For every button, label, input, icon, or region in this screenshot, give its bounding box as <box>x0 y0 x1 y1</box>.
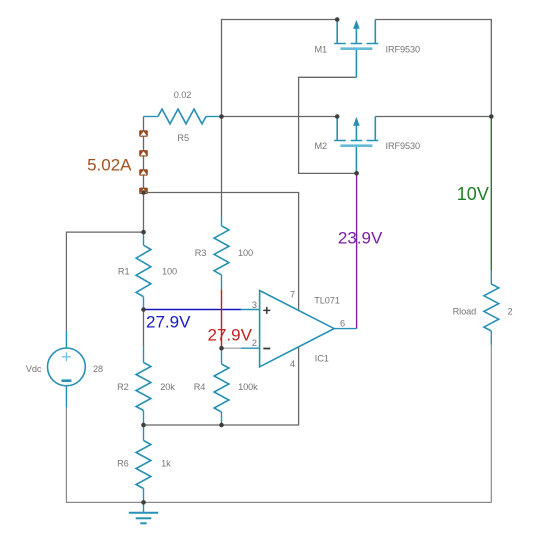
junction node Vdc/R1 <box>141 230 146 235</box>
svg-text:R4: R4 <box>194 382 206 392</box>
wire M1 gate to gate node <box>299 77 357 173</box>
junction node A blue <box>141 307 146 312</box>
wire opamp pin2 <box>222 347 241 349</box>
svg-text:0.02: 0.02 <box>174 90 191 100</box>
transistor M2 IRF9530 <box>334 117 378 175</box>
svg-text:100: 100 <box>162 267 177 277</box>
svg-text:R2: R2 <box>117 382 129 392</box>
wire blue node (R1/R2 to pin3) 27.9V <box>144 309 241 311</box>
transistor M1 IRF9530 <box>334 20 378 78</box>
svg-text:1k: 1k <box>161 459 171 469</box>
resistor Rload 2 <box>484 271 499 345</box>
wire top rail right <box>375 20 491 117</box>
svg-text:20k: 20k <box>160 382 175 392</box>
wire M2 drain to right rail <box>375 116 491 118</box>
junction node M1 source <box>335 17 340 22</box>
svg-text:2: 2 <box>507 307 512 317</box>
wire blue node to R2 <box>143 310 145 347</box>
current arrow marker 2 (ammeter 5.02A) <box>139 150 148 156</box>
svg-text:R5: R5 <box>177 133 189 143</box>
junction node ammeter/pin7 <box>141 190 146 195</box>
svg-text:Vdc: Vdc <box>26 364 42 374</box>
wire node192 to node232 <box>143 193 145 233</box>
svg-text:23.9V: 23.9V <box>338 229 383 248</box>
svg-text:100k: 100k <box>238 382 258 392</box>
svg-text:Rload: Rload <box>453 307 477 317</box>
junction node R2/R6 bottom rail <box>141 423 146 428</box>
svg-text:R1: R1 <box>118 267 130 277</box>
junction node R4 bottom rail <box>219 423 224 428</box>
wire Rload bottom to ground rail <box>490 345 492 503</box>
wire red node (R3 to pin2 node) 27.9V <box>221 290 223 349</box>
wire Vdc bottom to ground rail <box>66 408 491 503</box>
resistor R2 20k <box>136 346 151 425</box>
junction node B red <box>219 346 224 351</box>
svg-text:3: 3 <box>252 300 257 310</box>
ground <box>129 502 158 523</box>
current arrow marker 1 (ammeter 5.02A) <box>139 130 148 136</box>
svg-text:IRF9530: IRF9530 <box>386 141 421 151</box>
wire node192 to opamp pin7 <box>144 193 299 311</box>
svg-text:7: 7 <box>290 289 295 299</box>
svg-text:6: 6 <box>340 319 345 329</box>
opamp pin2 stub <box>241 347 260 349</box>
svg-text:27.9V: 27.9V <box>208 325 253 344</box>
svg-text:27.9V: 27.9V <box>146 313 191 332</box>
wire top rail left <box>222 19 338 21</box>
svg-text:IC1: IC1 <box>315 354 329 364</box>
junction node 10V right rail <box>489 114 494 119</box>
resistor R3 100 <box>214 216 229 290</box>
wire ammeter branch <box>143 117 145 193</box>
wire left vertical x221 top <box>221 19 223 117</box>
resistor R5 0.02 <box>144 109 222 124</box>
svg-text:M2: M2 <box>315 141 328 151</box>
current arrow marker 3 (ammeter 5.02A) <box>139 169 148 175</box>
wire green node (drain to Rload) 10V <box>490 117 492 271</box>
svg-text:28: 28 <box>93 364 103 374</box>
resistor R6 1k <box>136 425 151 502</box>
svg-text:R6: R6 <box>117 459 129 469</box>
junction node ground rail <box>141 500 146 505</box>
svg-text:M1: M1 <box>315 45 328 55</box>
junction node M2 source <box>335 114 340 119</box>
wire purple node (gates to opamp out) 23.9V <box>356 173 358 328</box>
opamp pin3 stub <box>241 309 260 311</box>
wire R5 node to M2 source <box>222 116 338 118</box>
resistor R4 100k <box>214 348 229 425</box>
svg-text:TL071: TL071 <box>314 296 340 306</box>
wire opamp pin4 to bottom rail <box>144 347 299 425</box>
op-amp IC1 TL071 <box>260 291 335 367</box>
svg-text:R3: R3 <box>195 248 207 258</box>
junction node R5/R3/M2-source <box>219 114 224 119</box>
wire node232 to Vdc top <box>66 232 143 331</box>
svg-text:100: 100 <box>238 248 253 258</box>
resistor R1 100 <box>136 232 151 309</box>
junction node gates <box>354 171 359 176</box>
svg-text:10V: 10V <box>457 184 489 204</box>
svg-text:5.02A: 5.02A <box>87 156 132 175</box>
current arrow marker 4 (ammeter 5.02A) <box>139 188 148 194</box>
svg-text:4: 4 <box>290 359 295 369</box>
opamp pin6 output stub <box>334 328 357 330</box>
svg-text:IRF9530: IRF9530 <box>386 45 421 55</box>
svg-text:2: 2 <box>252 338 257 348</box>
voltage source Vdc 28 <box>48 331 86 408</box>
wire x221 junction to R3 <box>221 117 223 217</box>
